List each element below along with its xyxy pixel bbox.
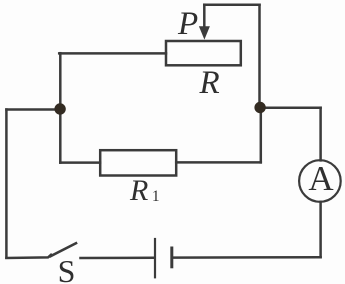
wiper arrowhead	[199, 26, 210, 39]
svg-text:R1: R1	[129, 174, 160, 207]
wire: ammeter to right corner	[319, 108, 322, 161]
ammeter A body	[299, 160, 341, 202]
wire: right vertical down to right node	[258, 5, 261, 106]
wire: left node to left edge	[6, 108, 60, 111]
resistor R (rheostat body)	[166, 41, 241, 65]
wire: battery to bottom-right corner	[173, 256, 320, 259]
switch S blade	[51, 243, 77, 256]
wire: bottom-left horizontal to switch pivot	[6, 255, 51, 258]
node: left junction	[54, 103, 65, 114]
wire: right node down to R1 branch	[260, 107, 263, 162]
wire: R1 right horizontal	[176, 161, 261, 164]
wire: top-left horizontal to rheostat R left terminal	[59, 52, 166, 55]
svg-text:S: S	[58, 253, 76, 284]
wire: left outer vertical	[5, 110, 8, 258]
wire: left node up to top branch	[59, 53, 62, 108]
wire: right node to ammeter branch	[260, 106, 321, 109]
svg-text:R: R	[199, 65, 220, 101]
wire: left node down to R1 branch	[59, 108, 62, 163]
svg-text:A: A	[308, 159, 334, 198]
wire: R1 left horizontal	[60, 161, 100, 164]
wire: switch to battery positive plate	[81, 257, 154, 260]
battery long plate (+)	[154, 239, 156, 277]
wire: right outer vertical up to ammeter	[319, 202, 322, 257]
wire: top horizontal from wiper	[204, 3, 259, 6]
wire: wiper stem	[203, 5, 206, 27]
battery short plate (-)	[170, 248, 173, 267]
resistor R1 body	[100, 150, 176, 175]
svg-text:P: P	[177, 6, 198, 42]
node: right junction	[254, 102, 265, 113]
